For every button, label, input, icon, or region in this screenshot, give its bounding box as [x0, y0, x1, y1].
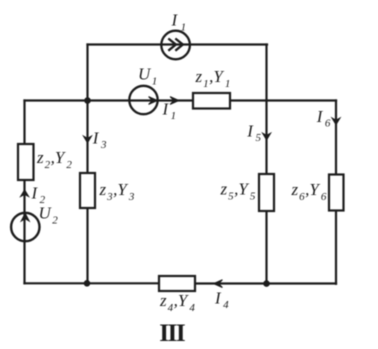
- svg-text:I4: I4: [214, 289, 229, 312]
- node junction top middle: [84, 97, 91, 104]
- svg-text:I5: I5: [246, 121, 261, 144]
- svg-text:z6,Y6: z6,Y6: [291, 180, 327, 203]
- arrow I1 on wire: [170, 97, 179, 105]
- svg-text:I6: I6: [316, 107, 331, 130]
- resistor Z1: [193, 93, 230, 109]
- svg-text:z5,Y5: z5,Y5: [220, 180, 256, 203]
- arrow I5: [263, 133, 271, 140]
- svg-text:U1: U1: [138, 65, 157, 88]
- arrow I4: [214, 280, 223, 288]
- wire top horizontal: [88, 43, 268, 45]
- wire middle branch upper: [86, 101, 88, 174]
- arrow I6: [332, 118, 340, 125]
- wire branch6 upper: [335, 101, 337, 175]
- wire main horizontal right segment: [230, 99, 336, 101]
- svg-text:z1,Y1: z1,Y1: [195, 67, 231, 90]
- svg-text:U2: U2: [39, 204, 59, 227]
- wire branch5 upper: [265, 101, 267, 175]
- wire middle branch lower: [86, 208, 88, 283]
- voltage source U1: [129, 86, 157, 114]
- wire left branch upper: [23, 101, 25, 145]
- wire branch6 lower: [335, 211, 337, 284]
- svg-text:z4,Y4: z4,Y4: [159, 291, 195, 314]
- wire top-right vertical: [265, 45, 267, 101]
- resistor Z5: [259, 174, 274, 211]
- svg-text:III: III: [159, 320, 185, 347]
- wire top-left vertical: [86, 45, 88, 101]
- wire bottom right segment: [195, 282, 336, 284]
- node junction bottom right: [263, 280, 270, 287]
- wire bottom left segment: [25, 282, 160, 284]
- arrow I2: [21, 190, 29, 197]
- wire main horizontal left segment: [25, 99, 194, 101]
- wire left branch lower: [23, 180, 25, 283]
- node junction bottom middle: [84, 280, 91, 287]
- svg-text:z2,Y2: z2,Y2: [36, 148, 72, 171]
- voltage source U2: [11, 213, 39, 241]
- resistor Z4: [159, 276, 195, 291]
- svg-text:I3: I3: [92, 128, 107, 151]
- arrow I3: [84, 136, 92, 143]
- wire branch5 lower: [265, 211, 267, 284]
- current source I1: [161, 31, 190, 60]
- resistor Z2: [18, 144, 34, 180]
- svg-text:z3,Y3: z3,Y3: [99, 180, 135, 203]
- resistor Z6: [329, 175, 344, 211]
- resistor Z3: [80, 173, 95, 208]
